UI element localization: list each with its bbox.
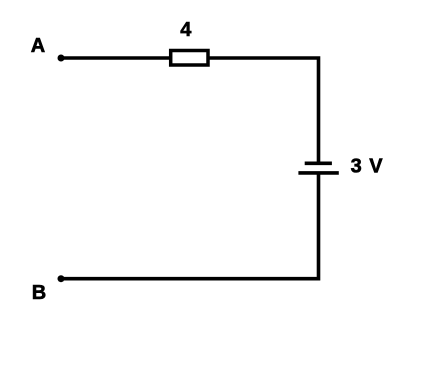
battery V1 top plate (short line) (305, 162, 332, 166)
svg-text:B: B (32, 282, 46, 304)
battery V1 bottom plate (long line) (298, 171, 338, 175)
node B terminal dot (58, 275, 65, 282)
svg-text:4: 4 (180, 19, 192, 41)
svg-text:V: V (369, 155, 383, 177)
resistor R1 (box style) (171, 51, 208, 66)
wire from node A through top to battery top plate (right vertical) (61, 58, 319, 165)
wire from node B along bottom to battery bottom plate (right vertical) (61, 172, 319, 279)
node A terminal dot (58, 55, 65, 62)
svg-text:3: 3 (351, 155, 362, 177)
svg-text:A: A (31, 35, 45, 57)
